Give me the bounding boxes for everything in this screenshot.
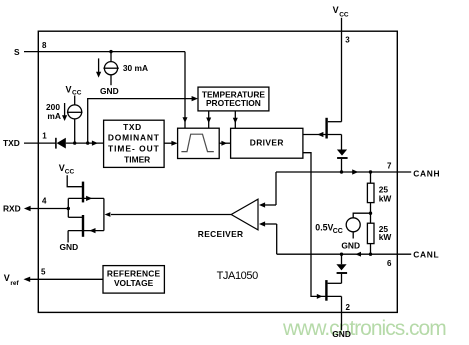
- node TXD-200mA junction: [73, 141, 76, 144]
- node CANH-diode junction: [340, 170, 343, 173]
- wire RXD output rail: [103, 198, 105, 230]
- block TXD dominant time-out timer: [104, 120, 165, 167]
- resistor R2 25 kW: [370, 213, 372, 223]
- waveform symbol slope control: [181, 134, 213, 151]
- svg-text:PROTECTION: PROTECTION: [206, 98, 261, 108]
- wire 30mA source to GND: [110, 75, 112, 85]
- transistor Q3 (RXD high-side): [82, 182, 84, 203]
- wire diode to CANH: [341, 159, 343, 172]
- svg-text:3: 3: [345, 36, 350, 45]
- svg-text:DRIVER: DRIVER: [250, 137, 284, 147]
- wire driver to Q2 gate: [303, 153, 342, 297]
- diode D3 (CANL): [341, 254, 343, 264]
- node CANH-R1 junction: [369, 170, 372, 173]
- node TXD-tempprot junction: [86, 141, 89, 144]
- svg-text:8: 8: [42, 41, 47, 50]
- wire Q4 to GND: [67, 231, 69, 243]
- IC outline box TJA1050: [38, 31, 397, 312]
- resistor R1 25 kW: [370, 172, 372, 183]
- wire VCC pin 3 down to transistor Q1: [341, 18, 343, 122]
- wire diode D3 to transistor Q2: [341, 274, 343, 283]
- wire CANL rail, pin 6: [277, 253, 412, 255]
- svg-text:GND: GND: [100, 86, 119, 96]
- svg-text:CANL: CANL: [413, 249, 439, 259]
- arrow into slope control: [171, 141, 177, 146]
- receiver comparator U1: [231, 199, 258, 230]
- wire slope control to driver: [219, 142, 230, 144]
- svg-text:DOMINANT: DOMINANT: [108, 132, 160, 142]
- svg-text:CC: CC: [339, 11, 349, 18]
- svg-text:V: V: [66, 84, 72, 94]
- svg-text:kW: kW: [379, 193, 392, 203]
- arrow on CANH line: [352, 169, 358, 174]
- arrow on CANL line: [355, 252, 361, 257]
- diode D2 (CANH): [337, 150, 347, 156]
- block driver: [231, 128, 303, 158]
- node CANL-R2 junction: [369, 253, 372, 256]
- transistor Q2 (CANL low-side): [325, 280, 327, 301]
- wire temperature protection to driver: [234, 111, 236, 128]
- svg-text:7: 7: [387, 161, 392, 170]
- block temperature protection: [198, 87, 269, 111]
- svg-text:RXD: RXD: [3, 204, 21, 214]
- wire gate node up and down: [67, 198, 69, 217]
- svg-text:0.5V: 0.5V: [315, 223, 333, 233]
- diode D1 at TXD input: [55, 138, 57, 149]
- wire diode to timer: [66, 142, 104, 144]
- wire receiver input from CANL: [265, 223, 277, 225]
- transistor Q1 (CANH high-side): [325, 118, 327, 139]
- svg-text:GND: GND: [60, 242, 79, 252]
- svg-text:TJA1050: TJA1050: [217, 270, 259, 282]
- current source 200 mA: [68, 105, 82, 119]
- node S junction: [109, 50, 112, 53]
- wire Q2 source to pin 2 GND: [341, 296, 343, 330]
- wire temperature protection to slope control: [208, 111, 210, 128]
- svg-text:S: S: [14, 47, 20, 57]
- wire CANH rail, pin 7: [276, 171, 411, 173]
- svg-text:V: V: [333, 5, 339, 15]
- node RXD gate junction: [67, 207, 70, 210]
- wire node S to 30mA source: [110, 52, 112, 62]
- svg-text:TXD: TXD: [3, 138, 20, 148]
- arrow into slope control from S: [183, 117, 188, 123]
- svg-text:TIMER: TIMER: [124, 154, 150, 164]
- svg-text:1: 1: [42, 132, 47, 141]
- voltage source 0.5VCC: [353, 213, 370, 218]
- svg-text:VOLTAGE: VOLTAGE: [114, 278, 154, 288]
- svg-text:30 mA: 30 mA: [123, 63, 148, 73]
- current source 30 mA: [104, 62, 117, 75]
- svg-text:www.cntronics.com: www.cntronics.com: [282, 317, 446, 340]
- wire TXD node to temperature protection: [88, 99, 193, 144]
- arrow into TXD timer: [92, 141, 98, 146]
- svg-text:TIME- OUT: TIME- OUT: [108, 143, 160, 153]
- svg-text:GND: GND: [341, 240, 360, 250]
- wire Q1 source to diode: [341, 135, 343, 150]
- wire 200mA source to TXD line: [74, 119, 76, 143]
- arrow into Q2 gate: [317, 294, 323, 299]
- wire VCC to 200mA source: [74, 96, 76, 105]
- svg-text:2: 2: [346, 303, 351, 312]
- wire S down to slope control: [184, 52, 186, 129]
- wire CANL up to receiver input: [276, 224, 278, 254]
- svg-text:CC: CC: [333, 228, 343, 235]
- svg-text:V: V: [4, 273, 10, 283]
- svg-text:CC: CC: [72, 89, 82, 96]
- svg-text:CANH: CANH: [413, 168, 440, 178]
- arrow into driver: [221, 141, 227, 146]
- svg-text:6: 6: [387, 259, 392, 268]
- wire VCC to transistor Q3: [67, 175, 82, 186]
- arrow current direction 200mA: [64, 103, 66, 116]
- node CANL-diode junction: [340, 253, 343, 256]
- svg-text:mA: mA: [47, 111, 61, 121]
- arrow into temperature protection: [192, 96, 198, 101]
- node R1-R2 junction: [369, 212, 372, 215]
- wire TXD pin to diode: [24, 142, 56, 144]
- wire receiver input from CANH: [265, 204, 277, 206]
- svg-text:kW: kW: [379, 232, 392, 242]
- svg-text:ref: ref: [10, 280, 19, 287]
- wire CANH down to receiver input: [275, 172, 277, 205]
- block reference voltage: [103, 266, 164, 294]
- arrow into slope control from tempprot: [206, 118, 211, 124]
- transistor Q4 (RXD low-side): [82, 215, 84, 237]
- svg-text:TXD: TXD: [123, 122, 142, 132]
- wire RXD pin: [30, 208, 68, 210]
- arrow current direction 30mA: [98, 58, 100, 72]
- wire receiver output to RXD stage: [111, 214, 231, 216]
- wire gate node to Q4: [68, 216, 82, 218]
- svg-text:5: 5: [41, 268, 46, 277]
- wire S to node, pin 8: [24, 51, 185, 53]
- arrow into driver from tempprot: [233, 118, 238, 124]
- svg-text:GND: GND: [332, 329, 351, 339]
- block slope control: [178, 128, 220, 158]
- svg-text:4: 4: [42, 197, 47, 206]
- svg-text:CC: CC: [65, 168, 75, 175]
- svg-text:RECEIVER: RECEIVER: [198, 229, 244, 239]
- wire Vref pin to reference voltage block: [29, 278, 103, 280]
- wire timer to slope control: [164, 142, 172, 144]
